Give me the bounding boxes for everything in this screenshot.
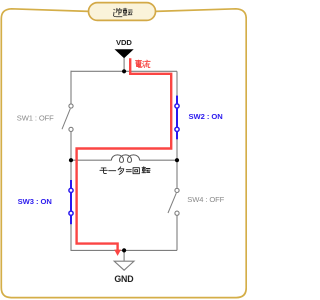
GND stem wire <box>123 250 125 261</box>
switch SW3 (closed) blue bar <box>70 180 72 224</box>
switch SW2 top contact circle <box>175 104 179 108</box>
motor inductor coil <box>112 155 140 163</box>
switch SW1 (open) lever <box>62 109 70 130</box>
motor label モータ＝回転 <box>100 167 150 175</box>
svg-text:SW2 : ON: SW2 : ON <box>189 112 223 121</box>
switch SW2 (closed) blue bar <box>176 96 178 140</box>
switch SW1 bottom contact circle <box>69 127 73 131</box>
node: GND junction dot <box>122 248 126 252</box>
GND symbol triangle <box>114 261 134 270</box>
switch SW2 bottom contact circle <box>175 127 179 131</box>
switch SW4 bottom contact circle <box>175 211 179 215</box>
switch SW3 top contact circle <box>69 188 73 192</box>
node: motor right junction dot <box>175 158 179 162</box>
wire: left vertical from SW1 bottom to bottom corner <box>70 132 72 251</box>
title text 逆転 <box>113 8 132 17</box>
node: VDD junction dot <box>122 69 126 73</box>
node: motor left junction dot <box>69 158 73 162</box>
VDD stem wire <box>123 58 125 71</box>
svg-text:SW4 : OFF: SW4 : OFF <box>187 195 224 204</box>
red current arrowhead <box>114 250 121 256</box>
wire: right vertical upper (to SW2 region) <box>176 71 178 188</box>
wire: left vertical upper (to SW1 top) <box>70 71 73 103</box>
wire: right vertical from SW4 bottom to bottom corner <box>176 215 178 250</box>
svg-text:SW1 : OFF: SW1 : OFF <box>17 114 54 123</box>
wire: top horizontal <box>71 70 178 72</box>
label 電流 (red) <box>135 60 150 67</box>
outer gold frame <box>1 9 246 298</box>
wire: middle horizontal right of motor <box>140 159 178 161</box>
wire: middle horizontal left of motor <box>71 159 112 161</box>
svg-text:GND: GND <box>114 274 133 284</box>
VDD power symbol triangle <box>115 49 134 58</box>
switch SW3 bottom contact circle <box>69 211 73 215</box>
svg-text:SW3 : ON: SW3 : ON <box>18 197 52 206</box>
switch SW4 (open) lever <box>168 193 176 213</box>
switch SW1 top contact circle <box>69 104 73 108</box>
svg-text:VDD: VDD <box>116 38 132 47</box>
switch SW4 top contact circle <box>175 188 179 192</box>
red current path <box>77 58 172 250</box>
wire: bottom horizontal <box>71 249 178 251</box>
title pill box <box>89 3 156 21</box>
